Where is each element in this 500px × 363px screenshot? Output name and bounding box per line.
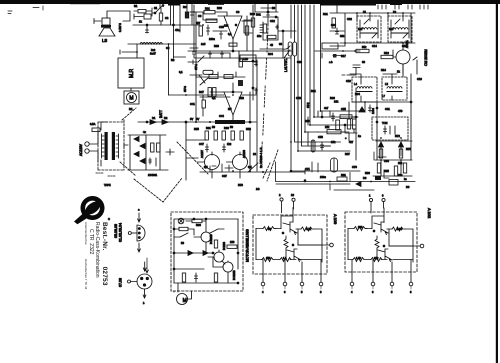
- svg-text:C41: C41: [190, 102, 195, 106]
- svg-text:0,1: 0,1: [179, 70, 183, 74]
- svg-text:M1: M1: [129, 107, 133, 111]
- svg-text:AC187: AC187: [200, 150, 204, 158]
- svg-text:8.96: 8.96: [397, 227, 403, 231]
- svg-text:56: 56: [212, 125, 215, 129]
- svg-text:R63: R63: [224, 126, 229, 130]
- svg-text:10.7: 10.7: [389, 28, 394, 31]
- svg-text:4: 4: [351, 290, 353, 294]
- svg-text:NF: NF: [228, 107, 232, 111]
- svg-text:C55: C55: [341, 107, 346, 111]
- svg-text:R8: R8: [171, 58, 175, 62]
- svg-text:6: 6: [284, 290, 286, 294]
- svg-text:1n: 1n: [358, 134, 361, 138]
- svg-text:ST-2: ST-2: [306, 102, 310, 108]
- svg-text:10k: 10k: [334, 99, 339, 103]
- svg-text:BC328B: BC328B: [232, 270, 236, 280]
- svg-text:1.1k: 1.1k: [356, 256, 362, 260]
- svg-text:M: M: [183, 298, 187, 304]
- svg-text:a: a: [138, 209, 140, 212]
- svg-text:0,1: 0,1: [228, 32, 232, 36]
- svg-text:C3: C3: [166, 46, 170, 50]
- svg-text:R1: R1: [134, 4, 138, 8]
- svg-text:0u47: 0u47: [150, 52, 156, 56]
- svg-text:A 202: A 202: [427, 208, 432, 219]
- svg-text:C14: C14: [372, 44, 377, 48]
- svg-text:1k2: 1k2: [227, 142, 232, 146]
- svg-text:R44: R44: [268, 52, 273, 56]
- svg-text:MOTOR-REGELUNG: MOTOR-REGELUNG: [246, 229, 250, 262]
- svg-text:07.08: 07.08: [119, 278, 123, 287]
- svg-text:0.5W 8: 0.5W 8: [118, 23, 122, 32]
- svg-text:R72: R72: [395, 134, 400, 138]
- svg-text:A 209: A 209: [333, 214, 338, 225]
- svg-text:ke: ke: [404, 177, 407, 181]
- svg-text:39k: 39k: [340, 34, 345, 38]
- svg-text:C52: C52: [296, 96, 301, 100]
- svg-text:R96: R96: [196, 223, 201, 227]
- svg-text:220: 220: [358, 225, 363, 229]
- svg-text:100u: 100u: [320, 175, 326, 179]
- svg-text:R40: R40: [250, 12, 255, 16]
- svg-text:22: 22: [253, 152, 256, 156]
- svg-text:10.7: 10.7: [358, 28, 363, 31]
- svg-text:4k7: 4k7: [196, 21, 201, 25]
- svg-text:R58: R58: [246, 127, 251, 131]
- svg-text:LAUTST.: LAUTST.: [284, 58, 288, 72]
- svg-text:100u: 100u: [371, 108, 375, 114]
- svg-text:4x: 4x: [143, 130, 146, 134]
- svg-text:BC238: BC238: [222, 242, 226, 250]
- svg-text:150: 150: [266, 256, 271, 260]
- svg-text:D8: D8: [406, 185, 410, 189]
- svg-text:0,5: 0,5: [204, 165, 208, 169]
- svg-text:22u: 22u: [398, 173, 403, 177]
- svg-text:5: 5: [301, 290, 303, 294]
- svg-text:22k: 22k: [224, 24, 229, 28]
- svg-text:6: 6: [372, 290, 374, 294]
- svg-text:R64: R64: [355, 92, 360, 96]
- svg-text:C61: C61: [385, 107, 390, 111]
- svg-text:BATT: BATT: [159, 110, 163, 118]
- svg-text:0,5: 0,5: [248, 165, 252, 169]
- svg-text:R78: R78: [238, 183, 243, 187]
- svg-text:R75: R75: [406, 147, 411, 151]
- svg-text:4.7k: 4.7k: [306, 227, 312, 231]
- svg-text:10u: 10u: [257, 34, 262, 38]
- svg-text:M.R: M.R: [129, 68, 135, 78]
- svg-text:C12: C12: [270, 19, 275, 23]
- svg-text:C: C: [108, 217, 110, 221]
- svg-text:0.5A: 0.5A: [90, 122, 96, 126]
- svg-text:ST-3: ST-3: [183, 86, 187, 92]
- svg-text:2k2: 2k2: [398, 161, 403, 165]
- svg-text:Dr2: Dr2: [151, 48, 156, 52]
- svg-text:1N4001: 1N4001: [148, 173, 158, 177]
- svg-text:1.1: 1.1: [283, 256, 287, 260]
- svg-text:C44: C44: [219, 114, 224, 118]
- svg-text:1: 1: [369, 194, 371, 198]
- svg-text:AC220V: AC220V: [79, 143, 83, 156]
- svg-text:C9: C9: [236, 10, 240, 14]
- svg-text:ST-1: ST-1: [194, 64, 198, 70]
- svg-text:22k: 22k: [374, 256, 379, 260]
- svg-text:L7: L7: [382, 94, 385, 98]
- svg-text:8: 8: [410, 290, 412, 294]
- svg-text:R61: R61: [206, 126, 211, 130]
- svg-text:CM 2002M: CM 2002M: [424, 49, 428, 66]
- svg-text:1k: 1k: [139, 20, 142, 24]
- svg-text:S1: S1: [154, 6, 158, 10]
- svg-text:R33: R33: [217, 6, 222, 10]
- svg-text:220: 220: [305, 119, 310, 123]
- svg-text:9V: 9V: [190, 117, 193, 121]
- svg-text:TAPE: TAPE: [104, 183, 111, 187]
- svg-text:M: M: [129, 96, 133, 102]
- svg-text:TON: TON: [382, 121, 388, 125]
- svg-text:C30: C30: [297, 60, 302, 64]
- svg-text:R26: R26: [330, 96, 335, 100]
- svg-text:C22: C22: [347, 17, 352, 21]
- svg-text:1k: 1k: [397, 70, 400, 74]
- svg-text:R80: R80: [365, 171, 370, 175]
- svg-text:56: 56: [230, 125, 233, 129]
- svg-text:C67: C67: [222, 174, 227, 178]
- svg-text:4k7: 4k7: [349, 140, 354, 144]
- svg-text:0,1: 0,1: [212, 96, 216, 100]
- svg-text:C58: C58: [318, 135, 323, 139]
- svg-text:R55: R55: [384, 169, 389, 173]
- svg-text:R67: R67: [345, 152, 350, 156]
- svg-text:R4: R4: [183, 5, 187, 9]
- svg-text:4u7: 4u7: [324, 106, 329, 110]
- svg-text:9V: 9V: [196, 117, 199, 121]
- svg-text:10: 10: [291, 193, 294, 197]
- svg-text:C24: C24: [331, 23, 336, 27]
- svg-text:22k: 22k: [325, 125, 330, 129]
- svg-text:47n: 47n: [175, 28, 180, 32]
- svg-text:LED: LED: [243, 57, 248, 61]
- svg-text:R12: R12: [384, 51, 389, 55]
- svg-text:100u: 100u: [209, 37, 215, 41]
- svg-text:63: 63: [362, 60, 365, 64]
- svg-text:R17: R17: [341, 54, 346, 58]
- svg-text:C47: C47: [199, 142, 204, 146]
- svg-text:5: 5: [391, 290, 393, 294]
- svg-text:R52: R52: [239, 96, 244, 100]
- svg-text:1G: 1G: [256, 187, 259, 191]
- svg-text:R55: R55: [194, 127, 199, 131]
- svg-text:b: b: [143, 301, 145, 305]
- svg-text:01.02.03.04: 01.02.03.04: [119, 223, 123, 242]
- svg-text:C70: C70: [352, 165, 357, 169]
- svg-text:2: 2: [279, 193, 281, 197]
- svg-text:L4: L4: [354, 82, 357, 86]
- svg-text:R61: R61: [311, 89, 316, 93]
- svg-text:C16: C16: [417, 77, 422, 81]
- svg-text:C19: C19: [346, 79, 351, 83]
- svg-text:8: 8: [320, 290, 322, 294]
- svg-text:C71: C71: [305, 167, 310, 171]
- svg-text:10k: 10k: [331, 140, 336, 144]
- svg-text:150: 150: [230, 240, 235, 244]
- svg-text:D2: D2: [164, 116, 168, 120]
- svg-text:C2: C2: [165, 16, 169, 20]
- svg-text:R41: R41: [256, 13, 261, 17]
- svg-text:R81: R81: [341, 173, 346, 177]
- svg-text:LS: LS: [102, 38, 107, 43]
- svg-text:+: +: [345, 137, 347, 140]
- svg-text:R47: R47: [199, 90, 204, 94]
- svg-text:45: 45: [270, 43, 273, 47]
- svg-text:50: 50: [181, 241, 184, 245]
- svg-text:AC188: AC188: [242, 150, 246, 158]
- svg-text:05.08.09: 05.08.09: [114, 224, 118, 238]
- svg-text:56k: 56k: [362, 45, 367, 49]
- svg-text:L5: L5: [385, 82, 388, 86]
- svg-text:C64: C64: [384, 159, 389, 163]
- svg-text:C15: C15: [402, 44, 407, 48]
- svg-text:R14: R14: [381, 68, 386, 72]
- svg-text:BC328B: BC328B: [209, 234, 213, 244]
- svg-text:4: 4: [262, 290, 264, 294]
- svg-text:C6: C6: [198, 14, 202, 18]
- svg-text:9: 9: [382, 194, 384, 198]
- svg-text:R31: R31: [205, 7, 210, 11]
- svg-text:D6: D6: [363, 176, 367, 180]
- svg-text:D1: D1: [152, 116, 156, 120]
- svg-text:a b: a b: [329, 60, 333, 64]
- svg-text:68: 68: [279, 42, 282, 46]
- svg-text:R21: R21: [323, 12, 328, 16]
- svg-text:470: 470: [398, 109, 403, 113]
- svg-text:1n5: 1n5: [201, 42, 206, 46]
- svg-text:R38: R38: [214, 44, 219, 48]
